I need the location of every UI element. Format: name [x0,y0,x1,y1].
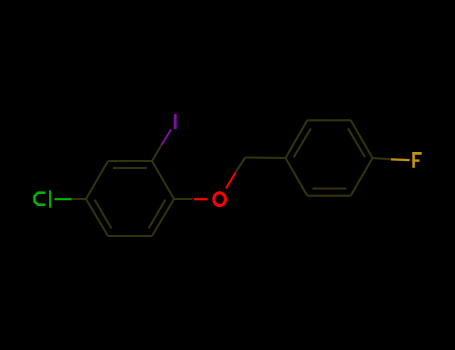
bond C4-O (carbon half) [174,198,193,200]
right ring bond C1'-C2' [286,120,308,158]
bond O-CH2 (oxygen half) [226,173,236,189]
atom label O [214,193,226,206]
bond C4-O (oxygen half) [194,198,208,200]
bond O-CH2 (carbon half) [236,157,246,173]
left ring bond C3-C4 [152,161,174,199]
left ring bond C5-C6 [108,235,152,237]
atom label F : top arm [412,152,421,155]
atom label F : middle arm [412,159,419,161]
bond C4'-F (fluorine half) [391,158,410,161]
right ring bond C4'-C5' [351,158,373,196]
right ring bond C6'-C1' [286,158,308,196]
atom label F : stem [412,152,415,168]
right ring inner double bond C1'-C2' [294,128,311,157]
bond C3-I (iodine half) [162,130,172,146]
right ring bond C5'-C6' [307,195,351,197]
atom label Cl : letter l [49,190,51,207]
bond Cl-C1 (green half) [55,198,72,200]
bond C4'-F (carbon half) [373,158,392,159]
bond Cl-C1 (carbon half) [72,198,87,200]
left ring bond C6-C1 [86,199,108,236]
left ring bond C4-C5 [152,199,174,236]
left ring inner double bond C2-C3 [113,167,147,169]
bond C3-I (carbon half) [152,145,162,161]
right ring inner double bond C3'-C4' [348,128,365,157]
right ring bond C2'-C3' [307,119,351,121]
bond CH2-C1' [246,156,286,159]
left ring bond C2-C3 [108,160,152,162]
atom label Cl : letter C [35,193,46,205]
atom label I [174,114,177,129]
left ring inner double bond C6-C1 [95,200,112,229]
left ring inner double bond C4-C5 [149,200,166,229]
right ring bond C3'-C4' [351,120,373,158]
left ring bond C1-C2 [86,161,108,199]
right ring inner double bond C5'-C6' [313,187,347,189]
